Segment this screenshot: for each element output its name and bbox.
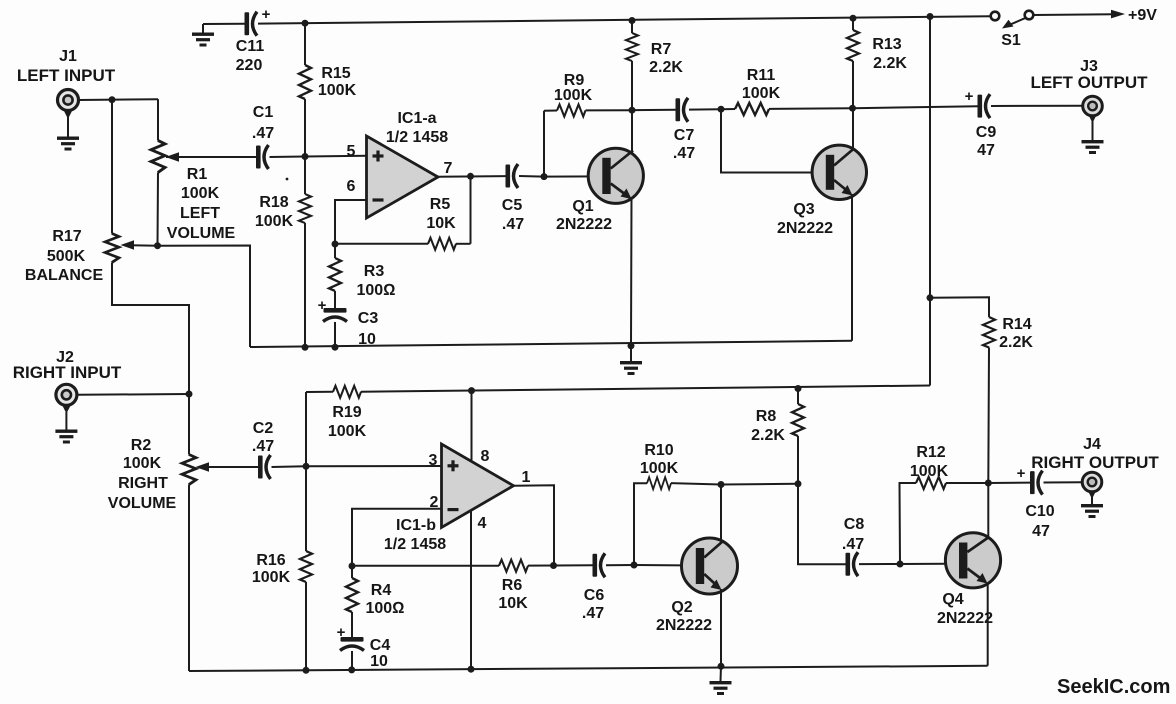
node Q2 emitter/bottom rail junction	[718, 663, 725, 670]
wire Q4 emitter to bottom rail	[987, 583, 989, 666]
wire C2 to pin 3 node	[272, 465, 307, 468]
op-amp U1a (IC1-a)	[367, 136, 439, 218]
node R7/R9/C7 collector junction	[629, 107, 636, 114]
svg-text:R5: R5	[430, 196, 451, 213]
wire R17 top lead from J1 node	[111, 100, 113, 234]
svg-text:10: 10	[370, 653, 388, 670]
capacitor C7	[632, 98, 721, 122]
svg-text:R3: R3	[364, 263, 385, 280]
svg-text:100K: 100K	[255, 213, 294, 230]
svg-text:2N2222: 2N2222	[777, 220, 833, 237]
svg-text:+: +	[318, 297, 327, 314]
wire R2 wiper to C2	[206, 466, 258, 468]
svg-text:C7: C7	[674, 127, 695, 144]
wire S1 to +9V arrow	[1034, 13, 1115, 16]
wire Q3 collector riser	[852, 108, 854, 150]
node R8/C8 coupling junction	[795, 480, 802, 487]
node output/feedback junction	[467, 173, 474, 180]
svg-text:C11: C11	[236, 38, 265, 55]
ground (bottom rail)	[710, 666, 732, 695]
svg-text:LEFT INPUT: LEFT INPUT	[17, 66, 116, 85]
svg-text:Q2: Q2	[671, 599, 692, 616]
wire top rail left segment	[203, 23, 245, 25]
ground (below J1)	[57, 117, 79, 151]
svg-text:C1: C1	[253, 104, 274, 121]
resistor R8	[792, 389, 804, 484]
transistor Q4	[945, 533, 1000, 588]
svg-text:+: +	[262, 6, 271, 23]
node R10/Q2 collector junction	[718, 481, 725, 488]
svg-text:100Ω: 100Ω	[357, 282, 396, 299]
wire Q3 base lead	[721, 109, 813, 172]
ground (center, Q1/Q3 emitters)	[620, 346, 642, 375]
wire Q1 collector riser	[631, 110, 633, 152]
wire J2 to R2 column	[77, 393, 189, 396]
node pin 3 junction	[303, 463, 310, 470]
node right column / R14 tap junction	[927, 294, 934, 301]
svg-text:C10: C10	[1025, 503, 1054, 520]
svg-text:+: +	[965, 88, 974, 105]
resistor R14	[930, 297, 995, 483]
resistor R12	[900, 477, 989, 564]
node top rail / R13 junction	[850, 15, 857, 22]
wire R1 wiper to C1	[166, 156, 256, 158]
wire R1 bottom lead	[157, 172, 160, 245]
capacitor C9	[978, 94, 991, 118]
svg-text:100K: 100K	[318, 82, 357, 99]
svg-text:100K: 100K	[181, 185, 220, 202]
svg-text:R8: R8	[756, 408, 777, 425]
svg-text:2.2K: 2.2K	[873, 55, 907, 72]
svg-text:100K: 100K	[742, 85, 781, 102]
svg-text:J1: J1	[59, 48, 77, 65]
svg-text:500K: 500K	[47, 248, 86, 265]
potentiometer R1	[151, 141, 165, 173]
svg-text:C2: C2	[253, 420, 274, 437]
svg-text:R19: R19	[332, 404, 361, 421]
node R13/R11/Q3 collector junction	[849, 105, 856, 112]
wire Q2 collector riser	[720, 485, 722, 543]
resistor R11	[721, 103, 853, 115]
svg-text:Q3: Q3	[793, 201, 814, 218]
svg-text:C8: C8	[844, 516, 865, 533]
resistor R19	[306, 386, 361, 398]
svg-text:R15: R15	[321, 65, 350, 82]
node emitter/ground bus junction	[628, 342, 635, 349]
svg-text:RIGHT OUTPUT: RIGHT OUTPUT	[1031, 453, 1159, 472]
wire pin 3 input	[306, 465, 442, 467]
wire right column from top rail	[929, 17, 931, 386]
svg-text:R18: R18	[259, 194, 288, 211]
node R14/R12/Q4 collector junction	[985, 480, 992, 487]
wire R15 to R18 rail	[304, 99, 306, 194]
resistor R15	[299, 23, 311, 99]
node J1/R1/R17 junction	[109, 96, 116, 103]
svg-text:C3: C3	[358, 310, 379, 327]
svg-text:2.2K: 2.2K	[751, 427, 785, 444]
node bias rail / pin 8 junction	[468, 387, 475, 394]
capacitor C6	[554, 553, 635, 577]
svg-text:R13: R13	[872, 36, 901, 53]
wire R17 bottom to J2 column	[112, 262, 189, 394]
svg-text:LEFT: LEFT	[180, 205, 220, 222]
svg-text:2N2222: 2N2222	[556, 216, 612, 233]
svg-text:C6: C6	[584, 587, 605, 604]
wiper arrow of R17	[121, 240, 135, 249]
node pin4/bottom rail junction	[468, 666, 475, 673]
wire R2 top lead	[188, 394, 190, 455]
svg-text:100K: 100K	[123, 455, 162, 472]
wire pin 6 to feedback node	[335, 200, 367, 244]
wire op-amp B output	[513, 485, 554, 565]
capacitor C4	[340, 637, 364, 670]
svg-text:+9V: +9V	[1128, 7, 1157, 24]
resistor R3	[329, 244, 341, 308]
transistor Q2	[682, 538, 738, 594]
svg-text:R14: R14	[1002, 316, 1031, 333]
ground (below J3)	[1082, 121, 1104, 154]
wiper arrow of R1	[166, 152, 180, 161]
svg-text:J4: J4	[1083, 436, 1101, 453]
wire pin 4 to bottom rail	[470, 511, 472, 670]
node top rail / right column junction	[927, 13, 934, 20]
wire Q1 emitter to ground bus	[630, 198, 633, 346]
wire C9 to J3	[991, 105, 1083, 107]
svg-text:R6: R6	[502, 577, 523, 594]
wire R1 top lead	[157, 99, 159, 140]
svg-text:.47: .47	[252, 438, 274, 455]
capacitor C8	[798, 484, 900, 576]
capacitor C3	[323, 308, 347, 347]
potentiometer R2	[182, 455, 196, 485]
svg-text:.47: .47	[252, 125, 274, 142]
stray mark	[286, 178, 289, 181]
svg-text:R17: R17	[52, 228, 81, 245]
svg-text:1/2 1458: 1/2 1458	[386, 129, 448, 146]
wire Q2 emitter to bottom rail	[720, 589, 722, 666]
wire R13 node to C9	[853, 106, 979, 108]
node R18/ground bus junction	[302, 344, 309, 351]
+9V arrowhead	[1111, 10, 1125, 19]
wire pin 2 to feedback node	[352, 509, 442, 566]
svg-text:R10: R10	[644, 442, 673, 459]
svg-text:RIGHT INPUT: RIGHT INPUT	[13, 363, 122, 382]
svg-text:Q1: Q1	[572, 198, 593, 215]
svg-text:2.2K: 2.2K	[649, 59, 683, 76]
svg-text:R11: R11	[747, 67, 776, 84]
svg-text:SeekIC.com: SeekIC.com	[1057, 676, 1170, 698]
ground (top left supply decoupling)	[192, 24, 214, 47]
node C4/bottom rail junction	[348, 666, 355, 673]
svg-text:1: 1	[522, 469, 531, 486]
resistor R9	[544, 105, 632, 177]
svg-text:.47: .47	[582, 605, 604, 622]
node C3/ground bus junction	[332, 344, 339, 351]
wire Q4 base lead	[900, 563, 947, 565]
node top rail / R15 junction	[302, 20, 309, 27]
svg-text:6: 6	[347, 178, 356, 195]
jack J1	[58, 90, 79, 120]
svg-text:+: +	[337, 624, 346, 641]
wire pin 5 input	[305, 155, 367, 158]
node bias rail / R8 junction	[795, 385, 802, 392]
svg-text:100Ω: 100Ω	[366, 600, 405, 617]
svg-text:.47: .47	[673, 145, 695, 162]
transistor Q1	[588, 148, 643, 203]
svg-text:2.2K: 2.2K	[999, 334, 1033, 351]
svg-text:R2: R2	[131, 437, 152, 454]
wire lower bias rail	[361, 386, 930, 392]
jack J2	[56, 384, 77, 413]
svg-text:Q4: Q4	[942, 591, 963, 608]
svg-text:5: 5	[347, 143, 356, 160]
wire R17 wiper to R1 bottom node	[131, 244, 158, 247]
node C8/R12/Q4 base junction	[897, 561, 904, 568]
svg-text:100K: 100K	[252, 569, 291, 586]
svg-text:10K: 10K	[498, 595, 528, 612]
svg-text:R12: R12	[916, 444, 945, 461]
svg-text:.47: .47	[502, 216, 524, 233]
svg-text:100K: 100K	[554, 87, 593, 104]
svg-text:C9: C9	[976, 124, 997, 141]
svg-text:4: 4	[478, 515, 487, 532]
potentiometer R17	[105, 234, 119, 263]
resistor R6	[352, 560, 554, 572]
svg-text:S1: S1	[1001, 32, 1021, 49]
wire +9V top rail	[258, 16, 991, 23]
svg-text:BALANCE: BALANCE	[25, 267, 104, 284]
svg-text:10K: 10K	[426, 215, 456, 232]
wire Q3 emitter to ground bus	[851, 194, 853, 341]
node output B/feedback junction	[550, 562, 557, 569]
wire lower left rail (R19 to R16)	[305, 392, 307, 466]
op-amp U1b (IC1-b)	[442, 444, 514, 528]
wire upper ground bus	[250, 341, 852, 347]
jack J4	[1082, 472, 1102, 499]
svg-text:R16: R16	[256, 552, 285, 569]
svg-text:C5: C5	[502, 197, 523, 214]
svg-text:IC1-a: IC1-a	[397, 110, 436, 127]
resistor R13	[847, 18, 859, 108]
svg-text:10: 10	[358, 331, 376, 348]
svg-text:7: 7	[444, 160, 453, 177]
svg-text:R1: R1	[187, 166, 208, 183]
node top rail / R7 junction	[629, 17, 636, 24]
capacitor C11	[245, 12, 258, 36]
node feedback junction (R6/R4/pin2)	[349, 563, 356, 570]
node C5/R9/Q1 base junction	[541, 173, 548, 180]
svg-text:2N2222: 2N2222	[937, 610, 993, 627]
wire R18 bottom to ground bus	[304, 223, 306, 347]
svg-text:VOLUME: VOLUME	[167, 225, 236, 242]
wire C1 to noninverting rail	[270, 156, 306, 159]
capacitor C2	[258, 455, 271, 479]
node feedback junction (R5/R3/pin6)	[332, 241, 339, 248]
wire op-amp A output	[437, 175, 506, 178]
svg-text:RIGHT: RIGHT	[118, 475, 168, 492]
svg-text:R4: R4	[371, 582, 392, 599]
transistor Q3	[812, 145, 866, 199]
wire Q2 collector to R8 node	[721, 483, 798, 486]
svg-text:3: 3	[429, 452, 438, 469]
svg-text:47: 47	[977, 142, 995, 159]
resistor R5	[335, 176, 471, 250]
capacitor C1	[256, 145, 269, 169]
wire C10 to J4	[1044, 481, 1083, 483]
resistor R10	[634, 477, 721, 565]
switch S1	[991, 11, 1034, 29]
svg-text:+: +	[1017, 465, 1026, 482]
node C6/R10/Q2 base junction	[631, 562, 638, 569]
jack J3	[1083, 96, 1103, 123]
ground (below J2)	[55, 412, 77, 444]
wire Q2 base lead	[634, 564, 682, 566]
svg-text:47: 47	[1032, 523, 1050, 540]
wire R2 bottom to bottom rail	[188, 485, 190, 672]
node C7/R11/Q3 base junction	[718, 106, 725, 113]
svg-text:100K: 100K	[640, 460, 679, 477]
wire J1 to R1 top corner	[79, 98, 159, 101]
node J2/R2/R17 junction	[186, 391, 193, 398]
svg-text:1/2 1458: 1/2 1458	[384, 536, 446, 553]
wire Q4 collector riser	[987, 483, 989, 538]
wire bottom rail	[189, 666, 988, 671]
capacitor C5	[506, 164, 519, 188]
svg-text:220: 220	[236, 57, 263, 74]
resistor R16	[300, 466, 312, 670]
svg-text:.47: .47	[842, 536, 864, 553]
svg-text:C4: C4	[370, 637, 391, 654]
svg-text:R7: R7	[651, 41, 672, 58]
svg-text:LEFT OUTPUT: LEFT OUTPUT	[1030, 73, 1148, 92]
wire pin 8 riser	[471, 391, 473, 462]
svg-text:IC1-b: IC1-b	[396, 517, 436, 534]
svg-text:2N2222: 2N2222	[656, 617, 712, 634]
svg-text:8: 8	[481, 448, 490, 465]
svg-text:100K: 100K	[910, 463, 949, 480]
wiper arrow of R2	[196, 462, 210, 471]
wire Q1 base lead	[544, 175, 603, 177]
capacitor C10	[1030, 471, 1043, 495]
ground (below J4)	[1081, 497, 1103, 518]
node R1 bottom / R17 wiper junction	[154, 242, 161, 249]
resistor R4	[346, 566, 358, 637]
svg-text:100K: 100K	[328, 423, 367, 440]
wire Q4 collector to C10	[988, 482, 1030, 484]
svg-text:VOLUME: VOLUME	[108, 495, 177, 512]
node R16/bottom rail junction	[303, 667, 310, 674]
wire ground return elbow	[158, 246, 251, 348]
resistor R18	[299, 194, 311, 223]
wire C5 to Q1 base node	[519, 175, 544, 178]
resistor R7	[626, 21, 638, 111]
node noninverting input junction	[302, 153, 309, 160]
